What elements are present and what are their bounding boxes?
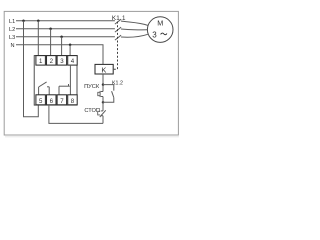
wire N line with corner down to contactor coil: [16, 45, 103, 65]
relay contact K7-8 closed: [59, 84, 70, 95]
holding contact K1.2: [112, 91, 114, 97]
node junction dot N to terminal 4: [69, 44, 72, 47]
motor M: [147, 17, 173, 43]
node junction dot L1 control tap: [22, 20, 25, 23]
wire holding contact return: [103, 98, 114, 103]
contactor contact K1.1 phase L2: [115, 27, 121, 32]
terminal 2: [47, 56, 57, 66]
wire N drop to terminal 4: [69, 45, 71, 56]
wire L3 phase line: [16, 36, 115, 38]
node junction dot L2 to terminal 2: [49, 28, 52, 31]
label L2: [9, 27, 15, 33]
label L1: [9, 19, 15, 25]
contactor contact K1.1 phase L1: [115, 19, 121, 24]
wire coil K to junction: [102, 74, 104, 85]
terminal 7: [57, 95, 67, 105]
terminal 5: [36, 95, 46, 105]
relay contact K5-6 open: [39, 82, 50, 95]
wire L3 drop to terminal 3: [61, 37, 63, 56]
wire branch to holding contact K1.2: [103, 85, 114, 91]
node junction dot L3 to terminal 3: [60, 36, 63, 39]
terminal 1: [36, 56, 46, 66]
contactor contact K1.1 phase L3: [115, 35, 121, 40]
wire L1 drop to terminal 1: [37, 21, 39, 56]
wire motor feed L2: [121, 28, 147, 31]
label N: [10, 43, 14, 49]
pushbutton stop NC: [98, 102, 106, 123]
svg-text:ПУСК: ПУСК: [84, 84, 100, 90]
label stop button: [84, 108, 100, 114]
wire terminal 6 to stop button: [49, 105, 103, 124]
relay U1 box outline: [34, 56, 77, 106]
node junction dot L1 to terminal 1: [37, 20, 40, 23]
border frame: [4, 11, 179, 136]
wire L2 drop to terminal 2: [50, 29, 52, 56]
wire internal from terminal 4 to relay contact: [69, 65, 71, 95]
svg-text:5: 5: [39, 98, 43, 105]
label start button: [84, 84, 100, 90]
wire motor feed L1: [121, 21, 148, 25]
svg-text:L1: L1: [9, 19, 15, 25]
svg-text:L2: L2: [9, 27, 15, 33]
terminal 8: [68, 95, 78, 105]
wire L2 phase line: [16, 28, 115, 30]
terminal 3: [57, 56, 67, 66]
svg-text:L3: L3: [9, 35, 15, 41]
svg-text:3: 3: [152, 30, 157, 39]
svg-text:1: 1: [39, 58, 43, 65]
node junction below start button: [102, 101, 105, 104]
svg-text:N: N: [10, 43, 14, 49]
label K1.2: [112, 80, 123, 86]
svg-text:7: 7: [60, 98, 64, 105]
contactor coil K: [95, 64, 113, 74]
wire motor feed L3: [121, 34, 148, 37]
svg-text:M: M: [157, 18, 163, 27]
terminal 6: [47, 95, 57, 105]
svg-text:K: K: [101, 65, 106, 74]
wire L1 phase line: [16, 20, 115, 22]
dashed mechanical link K1.1 to coil K: [113, 22, 117, 70]
pushbutton start NO: [98, 85, 103, 103]
node junction above start button: [102, 83, 105, 86]
svg-text:3: 3: [60, 58, 64, 65]
wire control feed from L1 down around to terminal 5: [24, 21, 39, 117]
terminal 4: [68, 56, 78, 66]
label L3: [9, 35, 15, 41]
label K1.1: [112, 15, 126, 22]
